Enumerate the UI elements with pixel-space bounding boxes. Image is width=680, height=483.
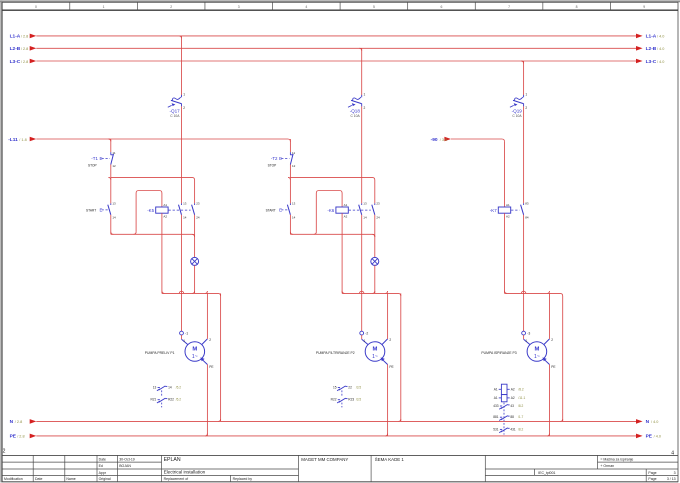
svg-text:L1-A: L1-A: [10, 34, 21, 40]
junction coil A2 corner on N-link (branch 1): [162, 291, 164, 294]
wire motor3 lead 1 diagonal (branch 3): [524, 339, 530, 344]
svg-text:/5.2: /5.2: [176, 398, 182, 402]
svg-text:3 / 13: 3 / 13: [667, 477, 676, 481]
svg-text:4: 4: [305, 5, 307, 9]
svg-text:30-Oct-19: 30-Oct-19: [119, 457, 135, 461]
wire lamp to N-link (branch 1): [194, 265, 196, 293]
wire start button to lower rail (branch 2): [289, 215, 291, 235]
main contact K5 (branch 1): [181, 203, 183, 205]
svg-text:23: 23: [376, 201, 380, 205]
svg-text:MAGET MM COMPANY: MAGET MM COMPANY: [301, 457, 348, 462]
svg-text:+ Orman: + Orman: [600, 464, 614, 468]
junction start-drop on node rail A (branch 1): [108, 177, 110, 179]
svg-text:2: 2: [170, 5, 172, 9]
svg-text:C 10A: C 10A: [170, 114, 180, 118]
wire L3-C phase rail: [36, 60, 636, 62]
stop button -T2E (branch 2): [289, 152, 291, 155]
wire aux drop from node A (branch 1): [194, 180, 196, 203]
svg-text:Appr: Appr: [99, 471, 107, 475]
wire Q17 to contact K5 (branch 1): [181, 106, 183, 203]
wire N return drop (branch 1): [220, 293, 222, 421]
motor M 1~ PUMPA PRELIV P1 (branch 1): [185, 342, 205, 362]
main contact K6 (branch 2): [361, 203, 363, 205]
circuit breaker Q18 (branch 2): [361, 95, 363, 97]
svg-text:PE: PE: [10, 434, 17, 440]
wire aux contact to lower rail and lamp (branch 2): [374, 215, 376, 258]
wire node rail A (branch 1): [111, 177, 195, 180]
start button START2 (branch 2): [289, 203, 291, 205]
svg-text:/ 1.8: / 1.8: [19, 138, 26, 142]
circuit breaker Q17 (branch 1): [181, 95, 183, 97]
wire lower node rail (branch 1): [111, 234, 195, 237]
wire motor pin2 up to N-link (branch 2): [387, 293, 389, 339]
svg-text:6: 6: [441, 5, 443, 9]
svg-text:1: 1: [183, 93, 185, 97]
wire node A down to start button (branch 2): [289, 177, 291, 203]
svg-text:2: 2: [183, 106, 185, 110]
interruption arrow N right: [636, 419, 643, 424]
wire motor lead 1 diagonal (branch 1): [182, 339, 188, 344]
interruption arrow L3-C left: [30, 59, 37, 64]
junction tap Q18 on phase rail (branch 2): [359, 48, 361, 50]
junction start on lower rail corner (branch 1): [111, 232, 113, 234]
svg-text:1: 1: [103, 5, 105, 9]
wire node A down to start button (branch 1): [110, 177, 112, 203]
svg-text:C 10A: C 10A: [351, 114, 361, 118]
svg-text:Name: Name: [66, 477, 75, 481]
svg-text:A2: A2: [344, 215, 348, 219]
svg-text:431: 431: [510, 427, 516, 431]
junction PE drop 3 on PE rail (branch 3): [547, 434, 549, 436]
junction coil loop on lower rail (branch 2): [314, 232, 316, 234]
svg-text:24: 24: [196, 215, 200, 219]
svg-text:-3: -3: [527, 332, 530, 336]
svg-text:14: 14: [292, 215, 296, 219]
junction coil A2 corner branch3 (branch 3): [505, 291, 507, 294]
wire aux contact to lower rail and lamp (branch 1): [194, 215, 196, 258]
svg-text:13: 13: [153, 385, 157, 389]
svg-text:13: 13: [112, 201, 116, 205]
svg-text:-Q18: -Q18: [350, 109, 361, 114]
svg-text:/8.2: /8.2: [518, 404, 524, 408]
junction tap Q17 on phase rail (branch 1): [179, 36, 181, 38]
svg-text:= Mašina za ispiranje: = Mašina za ispiranje: [600, 457, 633, 461]
svg-text:24: 24: [376, 215, 380, 219]
svg-text:2: 2: [364, 106, 366, 110]
wire N return drop branch3 (branch 3): [562, 296, 564, 421]
svg-text:A1: A1: [344, 203, 348, 207]
thermal aux contacts block (branch 2): [338, 387, 340, 389]
svg-text:2: 2: [525, 106, 527, 110]
wire N return drop (branch 2): [400, 293, 402, 421]
svg-text:22: 22: [348, 385, 352, 389]
svg-text:N: N: [646, 419, 650, 425]
svg-text:Page: Page: [648, 471, 656, 475]
svg-text:A1: A1: [494, 396, 498, 400]
wire contact to motor terminal (branch 1): [181, 215, 183, 331]
wire terminal to motor 3 (branch 3): [523, 335, 525, 339]
wire motor lead 1 diagonal (branch 2): [362, 339, 368, 344]
junction tap Q19 on phase rail (branch 3): [521, 61, 523, 63]
wire N-link rail (branch 1): [162, 293, 221, 296]
aux contact -K6 latch (branch 2): [374, 203, 376, 205]
svg-text:-K6: -K6: [327, 208, 334, 213]
wire lamp to N-link (branch 2): [374, 265, 376, 293]
svg-text:-1: -1: [185, 332, 188, 336]
wire Q19 feed from phase rail (branch 3): [523, 61, 525, 95]
wire aux drop from node A (branch 2): [374, 180, 376, 203]
svg-text:-K7: -K7: [490, 208, 497, 213]
wire -L11 drop to -T1E (branch 1): [110, 139, 112, 152]
interruption arrow L1-A left: [30, 34, 37, 39]
contactor K7 cross-ref coil boxes (branch 3): [501, 384, 507, 394]
svg-text:R22: R22: [331, 398, 337, 402]
indicator lamp -K6 (branch 2): [371, 257, 379, 265]
wire coil loop (branch 1): [136, 191, 162, 232]
svg-text:881: 881: [493, 415, 499, 419]
svg-text:Modification: Modification: [4, 477, 23, 481]
terminal -3 circle (branch 3): [522, 331, 526, 335]
svg-text:M: M: [373, 347, 378, 353]
wire coil K7 A2 to N-link (branch 3): [504, 213, 506, 293]
svg-text:15: 15: [333, 385, 337, 389]
svg-text:STOP: STOP: [268, 163, 277, 167]
wire motor PE diagonal (branch 1): [201, 359, 207, 365]
svg-text:/ 4.0: / 4.0: [657, 35, 664, 39]
svg-text:9: 9: [643, 5, 645, 9]
svg-text:R22: R22: [168, 398, 174, 402]
wire L2-B phase rail: [36, 47, 636, 49]
aux contact -K5 latch (branch 1): [194, 203, 196, 205]
svg-text:-T1: -T1: [91, 156, 98, 161]
svg-text:/11.1: /11.1: [518, 396, 525, 400]
svg-text:STOP: STOP: [88, 163, 97, 167]
svg-text:/1.7: /1.7: [518, 415, 524, 419]
svg-text:1~: 1~: [372, 354, 378, 360]
interruption arrow L2-B right: [636, 46, 643, 51]
junction -T1E drop on -L11 (branch 1): [108, 139, 110, 141]
junction motor pin2 on N-link (branch 2): [385, 291, 387, 293]
wire Q19 to contact K7 (branch 3): [523, 106, 525, 203]
svg-text:M: M: [534, 347, 539, 353]
wire motor3 lead 2 diagonal (branch 3): [544, 339, 550, 345]
junction PE drop on PE rail (branch 2): [385, 434, 387, 436]
svg-text:12: 12: [112, 164, 116, 168]
svg-text:L3-C: L3-C: [10, 59, 21, 65]
svg-text:Electrical installation: Electrical installation: [164, 470, 206, 475]
wire terminal to motor (branch 2): [361, 335, 363, 339]
indicator lamp -K5 (branch 1): [191, 257, 199, 265]
aux contact K7 in motor path (branch 3): [523, 203, 525, 205]
svg-text:PE: PE: [646, 434, 653, 440]
svg-text:PE: PE: [389, 365, 393, 369]
thermal aux contacts block (branch 1): [158, 387, 160, 389]
wire N-link rail branch3 (branch 3): [505, 293, 563, 296]
svg-text:START: START: [86, 209, 96, 213]
junction lower rail at aux drop (branch 2): [372, 234, 374, 236]
svg-text:7: 7: [508, 5, 510, 9]
wire -90 feeder: [451, 139, 505, 142]
svg-text:L3-C: L3-C: [646, 59, 657, 65]
motor M 1~ PUMPA FILTRIRANJE P2 (branch 2): [365, 342, 385, 362]
svg-text:A2: A2: [511, 388, 515, 392]
svg-text:13: 13: [183, 201, 187, 205]
interruption arrow N left: [30, 419, 37, 424]
svg-text:531: 531: [493, 427, 499, 431]
wire motor3 PE down to PE rail (branch 3): [549, 365, 551, 436]
svg-text:3: 3: [674, 471, 676, 475]
svg-text:23: 23: [196, 201, 200, 205]
svg-text:Page: Page: [648, 477, 656, 481]
svg-text:5: 5: [373, 5, 375, 9]
wire -T2E to node rail A (branch 2): [289, 165, 291, 178]
svg-text:13: 13: [363, 201, 367, 205]
svg-text:83: 83: [525, 201, 529, 205]
svg-text:L2-B: L2-B: [646, 46, 657, 52]
svg-text:14: 14: [168, 385, 172, 389]
svg-text:/3.5: /3.5: [356, 398, 362, 402]
hop N-link over main wire branch3 (branch 3): [521, 291, 525, 293]
svg-text:14: 14: [363, 215, 367, 219]
svg-text:-L11: -L11: [8, 137, 18, 143]
svg-text:88: 88: [510, 415, 514, 419]
terminal -1 circle (branch 1): [180, 331, 184, 335]
svg-text:11: 11: [112, 151, 115, 155]
wire L1-A phase rail: [36, 35, 636, 37]
svg-text:Date: Date: [35, 477, 42, 481]
junction motor pin2 on N-link (branch 1): [205, 291, 207, 293]
wire coil loop (branch 2): [316, 191, 342, 232]
svg-text:433: 433: [493, 404, 499, 408]
wire Q17 feed from phase rail (branch 1): [181, 36, 183, 95]
terminal -2 circle (branch 2): [360, 331, 364, 335]
svg-text:3: 3: [238, 5, 240, 9]
svg-text:14: 14: [183, 215, 187, 219]
interruption arrow L3-C right: [636, 59, 643, 64]
wire coil A2 down to N-link (branch 2): [341, 213, 343, 293]
wire Q18 feed from phase rail (branch 2): [361, 48, 363, 95]
svg-text:A1: A1: [506, 203, 510, 207]
page edge shading left: [0, 0, 2, 482]
wire -T1E to node rail A (branch 1): [110, 165, 112, 178]
interruption arrow PE left: [30, 434, 37, 439]
svg-text:2: 2: [389, 338, 391, 342]
svg-text:/ 2.8: / 2.8: [21, 35, 28, 39]
interruption arrow -L11 left: [30, 137, 37, 142]
junction lamp on N-link (branch 1): [192, 291, 194, 293]
svg-text:-T2: -T2: [271, 156, 278, 161]
svg-text:/ 2.8: / 2.8: [15, 420, 22, 424]
actuator dashes START2 (branch 2): [281, 209, 289, 211]
svg-text:L1-A: L1-A: [646, 34, 657, 40]
wire contact K7 to terminal (branch 3): [523, 215, 525, 331]
svg-text:-K5: -K5: [147, 208, 154, 213]
svg-text:R21: R21: [150, 398, 156, 402]
svg-text:N: N: [10, 419, 14, 425]
svg-text:PE: PE: [209, 365, 213, 369]
actuator dashes -T1E (branch 1): [102, 158, 110, 160]
wire motor3 PE diagonal (branch 3): [544, 359, 550, 365]
wire N rail: [36, 420, 636, 422]
interruption arrow L1-A right: [636, 34, 643, 39]
actuator dashes START1 (branch 1): [102, 209, 110, 211]
junction coil loop on lower rail (branch 1): [134, 232, 136, 234]
stop button -T1E (branch 1): [110, 152, 112, 155]
wire motor lead 2 diagonal (branch 2): [382, 339, 388, 345]
svg-text:PE: PE: [551, 365, 555, 369]
svg-text:1: 1: [183, 339, 185, 343]
svg-text:A1: A1: [494, 388, 498, 392]
svg-text:/ 4.0: / 4.0: [654, 435, 661, 439]
junction start-drop on node rail A (branch 2): [288, 177, 290, 179]
svg-text:ŠEMA KADE 1: ŠEMA KADE 1: [375, 457, 405, 462]
svg-text:14: 14: [112, 215, 116, 219]
wire start button to lower rail (branch 1): [110, 215, 112, 235]
contactor coil -K5 (branch 1): [156, 207, 168, 213]
svg-text:PUMPA PRELIV P1: PUMPA PRELIV P1: [145, 351, 175, 355]
svg-text:PUMPA ISPIRANJE P3: PUMPA ISPIRANJE P3: [481, 351, 516, 355]
frame header band bottom line: [2, 9, 678, 11]
svg-text:R23: R23: [348, 398, 354, 402]
page edge shading top: [0, 0, 680, 2]
wire -L11 control rail: [36, 139, 290, 142]
junction motor3 pin2 on N-link (branch 3): [547, 291, 549, 293]
svg-text:Ed: Ed: [99, 464, 103, 468]
svg-text:C 10A: C 10A: [512, 114, 522, 118]
svg-text:/8.2: /8.2: [518, 427, 524, 431]
junction coil A2 corner on N-link (branch 2): [342, 291, 344, 294]
svg-text:PUMPA FILTRIRANJE P2: PUMPA FILTRIRANJE P2: [316, 351, 355, 355]
svg-text:/5.2: /5.2: [176, 385, 182, 389]
svg-text:A2: A2: [511, 396, 515, 400]
svg-text:2: 2: [551, 338, 553, 342]
interruption arrow L2-B left: [30, 46, 37, 51]
junction N return on N rail (branch 1): [218, 419, 220, 421]
svg-text:/ 2.8: / 2.8: [17, 435, 24, 439]
svg-text:Replacement of: Replacement of: [164, 477, 189, 481]
svg-text:A1: A1: [163, 203, 167, 207]
junction N return 3 on N rail (branch 3): [560, 419, 562, 421]
svg-text:/8.2: /8.2: [518, 388, 524, 392]
wire PE rail: [36, 435, 636, 437]
svg-text:12: 12: [292, 164, 296, 168]
circuit breaker Q19 (branch 3): [523, 95, 525, 97]
junction lower rail at aux drop (branch 1): [192, 234, 194, 236]
mechanical link dashes -K5 (branch 1): [169, 209, 191, 211]
svg-text:A2: A2: [163, 215, 167, 219]
contactor coil -K6 (branch 2): [336, 207, 348, 213]
svg-text:1: 1: [525, 339, 527, 343]
svg-text:1: 1: [364, 93, 366, 97]
svg-text:2: 2: [209, 338, 211, 342]
title block grid: [2, 454, 678, 456]
mechanical link dashes -K6 (branch 2): [349, 209, 371, 211]
hop N-link over main wire (branch 2): [360, 291, 364, 293]
wire -90 down to coil K7 (branch 3): [504, 142, 506, 207]
wire lower node rail (branch 2): [290, 234, 374, 237]
svg-text:A2: A2: [506, 215, 510, 219]
junction lamp on N-link (branch 2): [372, 291, 374, 293]
motor M 1~ PUMPA ISPIRANJE P3 (branch 3): [527, 342, 547, 362]
wire motor PE down to PE rail (branch 1): [206, 365, 208, 436]
interruption arrow PE right: [636, 434, 643, 439]
svg-text:2: 2: [3, 448, 6, 454]
svg-text:0: 0: [35, 5, 37, 9]
svg-text:IEC_tpl001: IEC_tpl001: [538, 471, 555, 475]
svg-text:1: 1: [364, 339, 366, 343]
junction N return on N rail (branch 2): [398, 419, 400, 421]
actuator dashes -T2E (branch 2): [281, 158, 289, 160]
wire node rail A (branch 2): [290, 177, 374, 180]
wire motor PE diagonal (branch 2): [382, 359, 388, 365]
wire motor lead 2 diagonal (branch 1): [202, 339, 208, 345]
svg-text:1~: 1~: [534, 354, 540, 360]
svg-text:START: START: [266, 209, 276, 213]
svg-text:-90: -90: [431, 137, 438, 143]
svg-text:43: 43: [510, 404, 514, 408]
svg-text:/ 4.0: / 4.0: [657, 60, 664, 64]
svg-text:M: M: [192, 347, 197, 353]
junction start on lower rail corner (branch 2): [290, 232, 292, 234]
wire N-link rail (branch 2): [342, 293, 401, 296]
svg-text:13: 13: [292, 201, 296, 205]
wire Q18 to contact K6 (branch 2): [361, 106, 363, 203]
contactor coil -K7 (branch 3): [498, 207, 510, 213]
svg-text:/ 3.0: / 3.0: [440, 138, 447, 142]
wire motor3 pin2 up to N-link (branch 3): [549, 293, 551, 339]
junction PE drop on PE rail (branch 1): [205, 434, 207, 436]
wire -L11 drop to -T2E (branch 2): [289, 139, 291, 152]
svg-text:/ 2.8: / 2.8: [21, 47, 28, 51]
svg-text:Original: Original: [99, 477, 111, 481]
wire motor pin2 up to N-link (branch 1): [206, 293, 208, 339]
svg-text:L2-B: L2-B: [10, 46, 21, 52]
wire terminal to motor (branch 1): [181, 335, 183, 339]
interruption arrow -90 left: [444, 137, 451, 142]
svg-text:/3.5: /3.5: [356, 385, 362, 389]
svg-text:Replaced by: Replaced by: [233, 477, 253, 481]
wire motor PE down to PE rail (branch 2): [387, 365, 389, 436]
svg-text:BOJAN: BOJAN: [119, 464, 131, 468]
svg-text:84: 84: [525, 215, 529, 219]
svg-text:-Q19: -Q19: [512, 109, 523, 114]
svg-text:Date: Date: [99, 457, 106, 461]
start button START1 (branch 1): [110, 203, 112, 205]
contactor K7 cross-ref contacts (branch 3): [500, 405, 502, 407]
svg-text:-Q17: -Q17: [170, 109, 181, 114]
svg-text:EPLAN: EPLAN: [164, 457, 181, 463]
svg-text:/ 2.8: / 2.8: [21, 60, 28, 64]
svg-text:1~: 1~: [192, 354, 198, 360]
svg-text:/ 4.0: / 4.0: [657, 47, 664, 51]
svg-text:/ 4.0: / 4.0: [651, 420, 658, 424]
mechanical link dashes K7 (branch 3): [511, 209, 519, 211]
frame header column dividers: [69, 2, 71, 10]
wire coil A2 down to N-link (branch 1): [161, 213, 163, 293]
svg-text:-2: -2: [365, 332, 368, 336]
svg-text:11: 11: [292, 151, 295, 155]
svg-text:8: 8: [576, 5, 578, 9]
wire contact to motor terminal (branch 2): [361, 215, 363, 331]
svg-text:1: 1: [525, 93, 527, 97]
hop N-link over main wire (branch 1): [179, 291, 183, 293]
